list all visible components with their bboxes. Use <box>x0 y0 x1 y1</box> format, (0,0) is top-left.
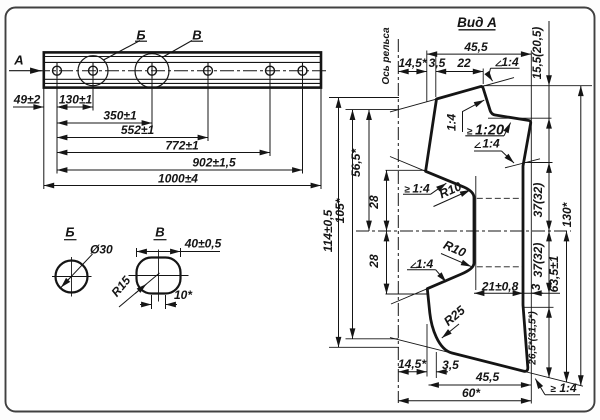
dimension 45,5 top <box>427 53 532 55</box>
svg-text:902±1,5: 902±1,5 <box>192 156 236 170</box>
leader Ø30 <box>64 254 93 284</box>
svg-text:14,5*: 14,5* <box>398 357 427 371</box>
top 105 extension <box>346 109 399 111</box>
rail axis centerline <box>397 39 399 403</box>
dimension 15,5(20,5) <box>548 21 550 378</box>
dimension 21±0,8 <box>474 292 523 294</box>
extension at 1:4 face bottom <box>523 162 553 164</box>
head ledge corner extension <box>488 117 552 119</box>
radius label R10 lower <box>441 254 471 267</box>
detail circle Б <box>78 56 108 86</box>
dimension 772±1 <box>57 152 270 154</box>
svg-text:772±1: 772±1 <box>165 139 199 153</box>
peak horizontal extension <box>484 85 593 87</box>
dimension 22 top <box>436 71 483 73</box>
bottom extension x436 <box>435 352 437 378</box>
svg-text:130*: 130* <box>560 201 574 227</box>
svg-text:63,5±1: 63,5±1 <box>547 255 561 292</box>
upper notch ledge extension left <box>386 169 427 171</box>
svg-text:1:4: 1:4 <box>412 182 430 196</box>
hole 4 <box>204 66 213 75</box>
svg-text:552±1: 552±1 <box>121 123 155 137</box>
bottom 114 extension <box>329 346 399 348</box>
svg-text:14,5*: 14,5* <box>398 56 427 70</box>
slanted 1:4 tick at right face <box>505 159 540 168</box>
right column extension x531 <box>530 51 532 404</box>
dimension 60* bottom <box>398 400 531 402</box>
hole 2 <box>89 66 98 75</box>
svg-text:1:4: 1:4 <box>501 55 519 69</box>
top face extension line 1:4 <box>390 78 514 112</box>
dimension 28 lower <box>386 231 388 294</box>
svg-text:Б: Б <box>65 225 74 240</box>
dimension 40±0,5 <box>136 248 138 257</box>
svg-text:350±1: 350±1 <box>103 109 137 123</box>
peak vertical extension <box>482 69 484 85</box>
svg-text:3,5: 3,5 <box>442 358 459 372</box>
bottom-left vertical extension x427 <box>426 324 428 377</box>
dimension 114±0,5 <box>338 98 340 348</box>
svg-text:40±0,5: 40±0,5 <box>184 237 222 251</box>
plate bottom edge inner lines <box>44 78 321 80</box>
radius label R10 upper <box>434 190 471 207</box>
svg-text:105*: 105* <box>333 197 347 223</box>
lower notch slope extension <box>391 289 427 304</box>
hole 5 <box>266 66 275 75</box>
svg-text:22: 22 <box>456 56 471 70</box>
svg-text:В: В <box>192 27 201 42</box>
dimension 130±1 <box>57 106 93 108</box>
detail В slot outline <box>137 258 181 294</box>
svg-text:21±0,8: 21±0,8 <box>481 280 519 294</box>
leader to label В <box>162 41 192 58</box>
svg-text:45,5: 45,5 <box>463 40 488 54</box>
hidden edge dashed upper <box>477 197 522 199</box>
dimension 14,5* bottom <box>398 371 427 373</box>
svg-text:15,5(20,5): 15,5(20,5) <box>532 27 544 80</box>
svg-text:37(32): 37(32) <box>531 183 545 218</box>
svg-text:49±2: 49±2 <box>13 93 41 107</box>
plate centerline <box>36 70 327 72</box>
hidden edge dashed lower <box>477 266 522 268</box>
svg-text:1:4: 1:4 <box>445 114 459 132</box>
hole 6 <box>298 66 307 75</box>
dimension 26,5*(31,5*) <box>548 307 550 378</box>
dimension 37(32) lower <box>548 231 550 293</box>
svg-text:37(32): 37(32) <box>531 243 545 278</box>
svg-text:Ось рельса: Ось рельса <box>381 27 392 85</box>
dimension 552±1 <box>57 137 208 139</box>
dimension 14,5* top <box>398 71 427 73</box>
hole 3 <box>148 66 157 75</box>
svg-text:28: 28 <box>367 195 381 210</box>
dimension 63,5±1 <box>566 231 568 382</box>
svg-text:56,5*: 56,5* <box>349 148 363 177</box>
svg-text:60*: 60* <box>462 386 481 400</box>
dimension 3,5 bottom <box>436 371 448 373</box>
dimension 902±1,5 <box>57 169 303 171</box>
svg-text:10*: 10* <box>174 288 193 302</box>
radius label R25 <box>442 324 459 338</box>
dimension 130* <box>580 86 582 386</box>
top-left vertical extension x427 <box>426 51 428 102</box>
bottom 105 extension <box>346 338 399 340</box>
plate top edge inner lines <box>44 56 321 58</box>
svg-text:А: А <box>13 53 23 68</box>
svg-text:Б: Б <box>136 27 145 42</box>
svg-text:1:4: 1:4 <box>559 381 577 395</box>
detail Б circle <box>56 261 88 293</box>
svg-text:3,5: 3,5 <box>429 56 446 70</box>
svg-text:3: 3 <box>529 283 543 290</box>
hole 1 <box>53 66 62 75</box>
leader R15 <box>119 273 160 307</box>
upper notch slope extension <box>390 157 426 172</box>
top corner extension x436 <box>435 55 437 97</box>
dimension 37(32) upper <box>548 163 550 232</box>
svg-text:28: 28 <box>367 254 381 269</box>
svg-text:В: В <box>155 225 164 240</box>
svg-text:Ø30: Ø30 <box>90 243 113 257</box>
svg-text:1:4: 1:4 <box>416 257 434 271</box>
svg-text:Вид А: Вид А <box>457 15 497 30</box>
dimension 45,5 bottom <box>429 384 532 386</box>
leader to label Б <box>104 41 141 61</box>
dimension 28 upper <box>386 170 388 231</box>
svg-text:≥: ≥ <box>550 384 556 395</box>
detail В crosshair <box>129 275 189 277</box>
svg-text:1:4: 1:4 <box>482 137 500 151</box>
detail circle В <box>135 54 169 88</box>
plate outline (plan view) <box>44 52 321 87</box>
dimension 105* <box>352 110 354 339</box>
dimension 1000±4 <box>44 185 321 187</box>
dimension 10* <box>151 295 153 309</box>
right bend extension y307 <box>523 306 554 308</box>
dimension 49±2 <box>13 106 44 108</box>
svg-text:26,5*(31,5*): 26,5*(31,5*) <box>528 311 539 366</box>
extension lines below plate <box>44 78 321 189</box>
svg-text:1000±4: 1000±4 <box>158 172 198 186</box>
dimension 350±1 <box>57 122 152 124</box>
dimension 3 <box>531 292 543 294</box>
lower notch ledge extension left <box>386 293 429 295</box>
bottom face extension 1:4 <box>390 338 583 387</box>
web face extension <box>475 176 477 290</box>
dimension 56,5* <box>368 110 370 231</box>
svg-text:45,5: 45,5 <box>475 370 500 384</box>
detail Б crosshair <box>52 276 92 278</box>
section horizontal centerline <box>356 230 571 232</box>
top 114 extension <box>329 97 399 99</box>
svg-text:130±1: 130±1 <box>59 93 93 107</box>
fishplate profile outline <box>426 86 531 371</box>
